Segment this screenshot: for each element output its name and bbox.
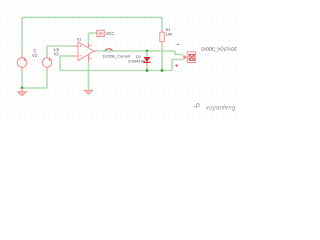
wire feedback horizontal to opamp	[60, 55, 74, 57]
svg-text:100: 100	[166, 31, 173, 36]
pin opamp vcc	[88, 43, 90, 47]
resistor R1	[160, 32, 164, 41]
wire V2 bottom to ground node	[21, 71, 23, 89]
pin V3 plus	[46, 55, 48, 58]
pin R1 top	[161, 30, 163, 32]
junction ground node	[21, 87, 23, 89]
probe U1 inner cross	[189, 54, 194, 60]
pin ground stub	[21, 88, 23, 92]
diode D1 cathode bar	[144, 62, 151, 63]
mark opamp vplus	[90, 44, 92, 46]
wire bottom-left rail V3 to V2	[22, 87, 47, 89]
power flag VCC box	[97, 30, 104, 36]
svg-text:DIODE_Current: DIODE_Current	[103, 54, 131, 59]
wire V3 to opamp noninverting input	[47, 45, 74, 47]
mark opamp vminus	[90, 58, 92, 60]
mark opamp minus input	[80, 55, 82, 57]
pin R1 bottom	[161, 41, 163, 43]
junction diode bottom	[146, 69, 148, 71]
mark probe plus	[175, 64, 178, 67]
wire vcc vertical	[88, 33, 90, 44]
pin probe wedge	[183, 55, 187, 60]
pin opamp vminus stub	[88, 55, 90, 62]
wire R1 bottom to rail	[161, 44, 163, 71]
wire diode branch bottom	[146, 66, 148, 70]
ground GND2	[84, 90, 93, 94]
svg-text:VCC: VCC	[106, 31, 115, 36]
pin V2 plus	[21, 55, 23, 58]
wire V3 top up	[46, 46, 48, 56]
svg-text:V2: V2	[32, 53, 38, 58]
mark V3 plus	[49, 59, 51, 61]
svg-text:D1N4148: D1N4148	[128, 59, 146, 64]
svg-text:DIODE_VOLTAGE: DIODE_VOLTAGE	[201, 46, 237, 51]
wire vcc horizontal	[89, 32, 98, 34]
junction diode top	[146, 50, 148, 52]
svg-text:xuyanfeng: xuyanfeng	[205, 105, 236, 111]
wire output rail	[97, 50, 175, 52]
probe U1 inner	[189, 54, 194, 60]
power flag VCC inner	[99, 32, 103, 35]
wire top rail from V2 to R1	[22, 16, 162, 18]
junction R1 rail	[161, 69, 163, 71]
wire V3 bottom down	[46, 71, 48, 89]
mark opamp plus input	[80, 45, 82, 47]
pin V2 minus	[21, 67, 23, 70]
mark V2 plus	[24, 59, 26, 61]
pin opamp input bottom	[73, 55, 78, 57]
svg-text:X1: X1	[77, 37, 83, 42]
pin opamp input top	[73, 45, 78, 47]
pin V3 minus	[46, 67, 48, 70]
current probe arc	[105, 49, 112, 51]
wire opamp to ground	[88, 62, 90, 90]
ground GND1	[18, 92, 27, 96]
wire probe bottom link	[172, 60, 183, 71]
wire bottom rail	[60, 70, 172, 72]
diode D1	[144, 57, 151, 62]
voltage source V2	[17, 58, 27, 68]
wire diode branch top	[146, 51, 148, 57]
voltage source V3	[42, 58, 52, 68]
wire R1 top	[161, 17, 163, 30]
wire probe top link	[175, 51, 183, 54]
watermark logo	[194, 103, 199, 107]
mark probe minus	[177, 43, 179, 45]
wire left vertical V2 top	[21, 17, 23, 55]
probe U1 box	[187, 52, 195, 63]
pin diode cathode	[146, 63, 148, 67]
svg-text:V3: V3	[54, 52, 60, 57]
op-amp X1	[78, 42, 94, 61]
wire feedback left vertical	[59, 56, 61, 71]
pin opamp output	[94, 50, 97, 52]
